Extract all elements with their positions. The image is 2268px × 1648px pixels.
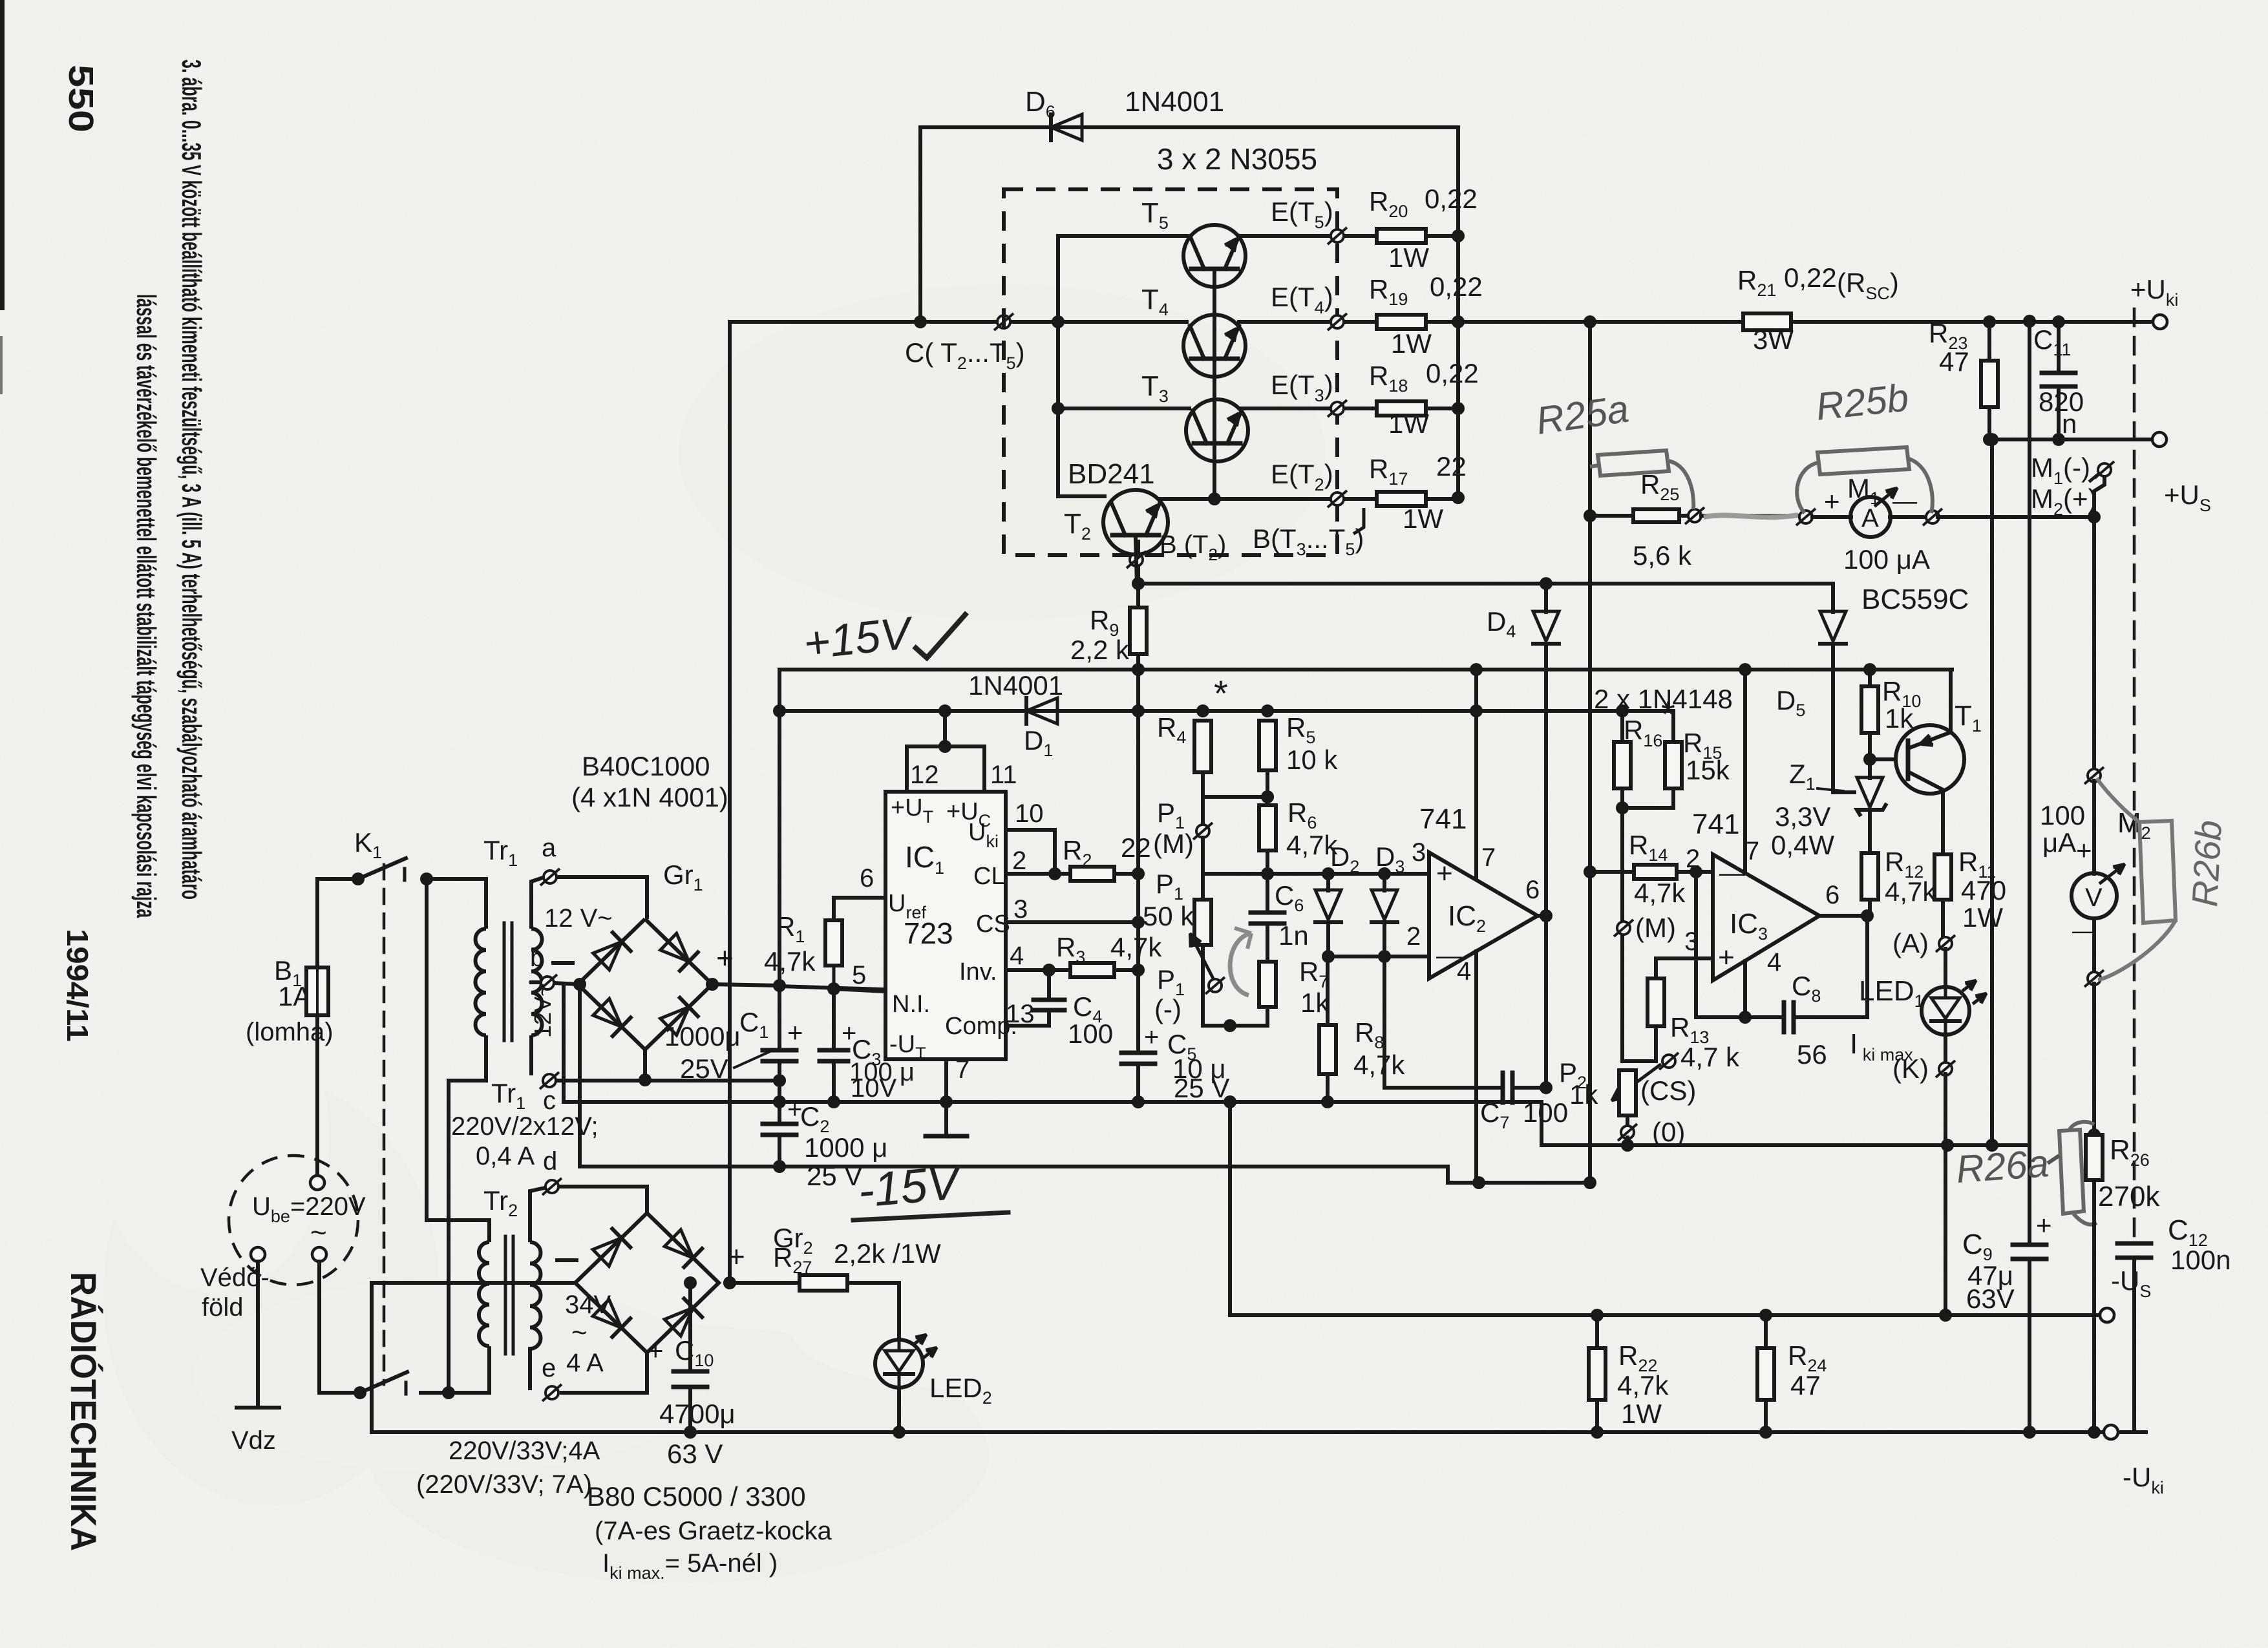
wire P1 bottom to row — [1203, 945, 1230, 1026]
resistor R7 — [1266, 924, 1269, 962]
connection point M lower — [1614, 920, 1633, 936]
connection point B(T2) — [1127, 551, 1146, 568]
wire T5 base chain — [1213, 269, 1216, 359]
wire A row — [1590, 514, 1633, 518]
wire R10 to T1 base — [1868, 733, 1872, 759]
potentiometer P2 — [1619, 1070, 1636, 1115]
connection point M1M2 — [2095, 461, 2114, 478]
svg-text:(K): (K) — [1892, 1053, 1929, 1084]
capacitor C5 — [1121, 1051, 1155, 1055]
svg-text:2,2 k: 2,2 k — [1070, 635, 1130, 665]
wire R2 to spine — [1114, 872, 1138, 876]
svg-text:(CS): (CS) — [1640, 1075, 1696, 1106]
bridge rectifier Gr2 — [575, 1213, 719, 1353]
terminal b — [538, 975, 557, 991]
wire C8 feedback — [1696, 872, 1784, 1017]
resistor R19 — [1377, 315, 1426, 329]
wire secondary a — [531, 878, 543, 929]
capacitor C10 — [688, 1283, 692, 1371]
svg-text:d: d — [543, 1147, 557, 1176]
svg-text:(lomha): (lomha) — [246, 1018, 334, 1046]
op-amp IC2 741 — [1429, 852, 1538, 978]
svg-text:R26a: R26a — [1955, 1141, 2050, 1191]
svg-text:+: + — [1436, 858, 1453, 889]
wire Gr1+ row to R1/N.I. spine — [779, 986, 884, 989]
wire Gr1 minus to -15V rail — [578, 984, 582, 1167]
wire LED2 to -Uki rail — [897, 1388, 901, 1432]
diode D5 — [1831, 584, 1835, 612]
terminal d — [542, 1178, 562, 1195]
svg-text:+: + — [787, 1017, 803, 1048]
svg-text:15k: 15k — [1686, 755, 1730, 785]
pin bracket 12 11 — [907, 746, 984, 792]
terminal -Us — [2100, 1308, 2114, 1322]
svg-text:E(T2): E(T2) — [1271, 459, 1333, 494]
resistor R15 — [1671, 711, 1675, 742]
transistor T3 — [1058, 407, 1189, 410]
connection point above M2 — [2084, 767, 2104, 784]
plug terminal left — [251, 1247, 265, 1262]
svg-text:22: 22 — [1121, 832, 1151, 863]
svg-text:12 V~: 12 V~ — [544, 904, 613, 933]
potentiometer P1 50k — [1201, 838, 1205, 900]
wire vertical IC2out — [1544, 644, 1548, 1088]
svg-text:6: 6 — [860, 864, 874, 893]
wire M2 riser — [2094, 476, 2104, 770]
diode D6 — [1049, 114, 1053, 140]
svg-text:100n: 100n — [2170, 1245, 2231, 1275]
svg-text:1k: 1k — [1300, 988, 1330, 1018]
resistor R21 — [1743, 313, 1791, 330]
wire d to bridge Gr2 — [559, 1187, 647, 1213]
svg-text:—: — — [1892, 488, 1917, 515]
connection point CS — [1659, 1053, 1679, 1070]
wire right bus — [1456, 127, 1460, 498]
wire center spine T2 base to C5 — [1136, 542, 1140, 1053]
svg-text:6: 6 — [1825, 881, 1839, 909]
wire c row — [556, 1079, 779, 1083]
wire R14 row — [1590, 870, 1634, 874]
connection point K — [1944, 1034, 1947, 1064]
wire secondary e — [528, 1349, 532, 1388]
wire R14 to IC3 minus — [1677, 870, 1713, 874]
svg-text:12: 12 — [910, 761, 939, 789]
pin 4 Inv wire — [1006, 968, 1070, 972]
svg-text:1W: 1W — [1403, 503, 1443, 534]
IC1 ground symbol — [944, 1102, 948, 1136]
wire b to bridge minus corner — [555, 983, 578, 984]
wire Gr2 plus riser to collector rail — [728, 322, 732, 1283]
svg-text:1W: 1W — [1388, 242, 1429, 273]
wire mid rail 0V — [564, 1100, 1542, 1104]
wire sense vertical +Us to 0 row — [1990, 439, 1994, 1145]
switch K1 pole 1 — [352, 872, 365, 885]
svg-text:0,22: 0,22 — [1430, 271, 1483, 302]
svg-text:220V/33V;4A: 220V/33V;4A — [449, 1437, 600, 1465]
svg-text:25 V: 25 V — [1174, 1073, 1229, 1103]
svg-text:2: 2 — [1686, 845, 1700, 873]
resistor R16 — [1620, 711, 1624, 742]
svg-text:25V: 25V — [680, 1053, 728, 1084]
svg-text:3,3V: 3,3V — [1775, 801, 1830, 832]
svg-text:1k: 1k — [1885, 703, 1914, 734]
diode D4 — [1544, 584, 1548, 612]
wire R27 row from Gr2 plus — [730, 1281, 899, 1285]
wire R26 to -Uki — [2092, 1180, 2096, 1432]
dashed remote sense line — [2133, 309, 2136, 1239]
resistor R24 — [1764, 1315, 1768, 1348]
svg-text:E(T4): E(T4) — [1271, 282, 1333, 317]
connection point 0 — [1618, 1124, 1637, 1141]
connection point E T2 — [1328, 491, 1347, 507]
wire mid rail jog to 0 row — [1542, 1102, 2030, 1145]
svg-text:+: + — [2076, 835, 2092, 865]
wire sense vertical +Uki to C9 — [2028, 321, 2031, 1245]
svg-text:*: * — [1214, 673, 1228, 713]
capacitor C6 — [1266, 874, 1269, 913]
svg-text:μA: μA — [2042, 827, 2076, 858]
svg-text:E(T3): E(T3) — [1271, 370, 1333, 405]
op-amp IC3 741 — [1713, 854, 1819, 980]
fuse B1 wire upper — [315, 967, 319, 1175]
svg-text:4,7k: 4,7k — [764, 946, 816, 977]
svg-text:2: 2 — [1012, 847, 1026, 875]
svg-text:c: c — [543, 1086, 556, 1115]
svg-text:1000μ: 1000μ — [664, 1021, 741, 1051]
svg-text:1N4001: 1N4001 — [968, 670, 1063, 701]
svg-text:4 A: 4 A — [566, 1349, 604, 1377]
svg-text:0,4W: 0,4W — [1771, 830, 1834, 860]
wire M2 bottom — [2092, 918, 2096, 973]
wire b drop to mid rail — [562, 984, 566, 1102]
svg-text:(220V/33V; 7A): (220V/33V; 7A) — [416, 1470, 592, 1499]
svg-text:7: 7 — [955, 1055, 970, 1084]
resistor R18 — [1377, 401, 1426, 416]
svg-text:(-): (-) — [1154, 994, 1182, 1024]
wire C1 to mid rail — [778, 1061, 781, 1102]
connection point after M1 — [1923, 509, 1942, 525]
wire Tr2 primary return to switch2 — [449, 1346, 489, 1393]
wire A row right — [1938, 515, 2094, 519]
svg-text:4,7k: 4,7k — [1617, 1370, 1669, 1400]
svg-text:e: e — [542, 1354, 556, 1382]
capacitor C12 — [2117, 1241, 2151, 1246]
svg-text:föld: föld — [202, 1293, 244, 1322]
svg-text:1k: 1k — [1569, 1079, 1598, 1110]
svg-text:4: 4 — [1457, 957, 1471, 986]
wire -Uki rail — [372, 1430, 2146, 1434]
svg-text:(0): (0) — [1652, 1117, 1685, 1147]
resistor R13 — [1648, 978, 1664, 1026]
diode D1 1N4001 — [1024, 698, 1028, 724]
svg-text:100: 100 — [1523, 1097, 1568, 1128]
wire CS row — [1622, 1059, 1656, 1063]
wire R13 to CS row — [1654, 1026, 1658, 1061]
switch K1 pole 2 — [319, 1391, 360, 1395]
transistor T1 BC559C — [1896, 725, 1964, 794]
wire A row middle — [1701, 514, 1801, 518]
wire fuse to switch K1 — [317, 879, 356, 967]
resistor R27 — [800, 1275, 847, 1291]
wire C10 to -Uki rail — [688, 1387, 692, 1432]
wire bracket to D1 row — [943, 711, 947, 746]
wire +15V rail — [779, 668, 1952, 671]
wire IC2 minus row — [1328, 955, 1429, 958]
svg-text:47: 47 — [1790, 1370, 1821, 1400]
svg-text:—: — — [2072, 917, 2095, 944]
wire R1 top to pin6 — [834, 898, 885, 920]
svg-text:0,22: 0,22 — [1425, 184, 1478, 214]
connection point collector — [994, 313, 1013, 330]
svg-text:10 k: 10 k — [1286, 745, 1338, 775]
wire R4/R5 link — [1203, 795, 1267, 799]
svg-text:470: 470 — [1961, 875, 2006, 905]
svg-text:4700μ: 4700μ — [659, 1399, 736, 1429]
wire C12 to -Uki corner — [2134, 1431, 2146, 1433]
diode D2 — [1326, 874, 1330, 891]
wire raw plus row to C1/R1 — [778, 986, 781, 1050]
terminal a — [540, 869, 560, 885]
svg-text:—: — — [1719, 859, 1745, 887]
resistor R11 — [1934, 854, 1951, 900]
resistor R5 — [1259, 721, 1276, 770]
resistor R26 — [2088, 1128, 2101, 1141]
svg-text:B80 C5000 / 3300: B80 C5000 / 3300 — [587, 1481, 806, 1512]
svg-text:3 x 2 N3055: 3 x 2 N3055 — [1157, 142, 1317, 176]
wire T4 base chain — [1213, 359, 1216, 443]
connection point P1 M — [1193, 823, 1213, 840]
wire Gr2 minus to -Uki rail — [372, 1283, 575, 1432]
capacitor C11 — [2057, 322, 2061, 373]
wire R5 R6 link — [1266, 770, 1269, 805]
transistor T5 — [1058, 234, 1187, 238]
wire IC3 pin7 riser — [1743, 670, 1747, 873]
connection point before M1 — [1796, 509, 1816, 525]
pin 2 CL wire — [1006, 872, 1070, 876]
fuse B1 — [306, 967, 328, 1015]
wire plug right to switch K1 pole 2 — [317, 1262, 321, 1393]
capacitor C9 — [2013, 1243, 2046, 1247]
wire IC2 feedback drop — [1383, 956, 1386, 1088]
resistor R23 — [1987, 322, 1991, 361]
wire R25 to contact — [1679, 514, 1688, 518]
wire collector rail — [730, 320, 1187, 324]
terminal -Uki — [2104, 1425, 2118, 1439]
svg-text:R26b: R26b — [2184, 819, 2229, 908]
wire IC3 plus input — [1656, 958, 1713, 978]
plug terminal top — [310, 1176, 324, 1190]
bridge rectifier Gr1 — [578, 919, 712, 1050]
svg-text:BD241: BD241 — [1068, 458, 1155, 490]
svg-text:100: 100 — [2040, 800, 2085, 830]
wire R6 to plus row — [1266, 850, 1269, 874]
svg-text:3: 3 — [1412, 838, 1426, 867]
svg-text:0,22: 0,22 — [1784, 262, 1837, 293]
svg-text:50 k: 50 k — [1143, 901, 1194, 931]
transformer Tr1 primary winding — [476, 929, 486, 1035]
resistor R10 — [1868, 670, 1872, 686]
svg-text:22: 22 — [1436, 451, 1467, 481]
capacitor C4 — [1047, 970, 1051, 1000]
wire K to -Us rail — [1944, 1074, 1947, 1315]
diode D3 — [1383, 874, 1386, 891]
terminal c — [540, 1072, 559, 1089]
svg-text:3W: 3W — [1753, 324, 1794, 355]
transformer Tr2 secondary winding — [530, 1242, 541, 1349]
svg-text:1N4001: 1N4001 — [1125, 86, 1224, 118]
wire secondary c — [529, 1035, 533, 1075]
wire T3 base chain — [1213, 443, 1216, 499]
wire T1 base row — [1870, 757, 1896, 761]
resistor R14 — [1634, 865, 1677, 879]
wire B drive row — [1138, 582, 1833, 586]
transistor T4 — [1058, 320, 1187, 324]
capacitor C8 — [1782, 1002, 1786, 1032]
wire R11 to A point — [1941, 900, 1945, 938]
wire a to bridge Gr1 top — [557, 877, 647, 919]
svg-text:2: 2 — [1406, 922, 1421, 951]
transformer Tr2 primary winding — [479, 1242, 489, 1346]
svg-text:+: + — [648, 1335, 664, 1366]
connection point E T4 — [1328, 313, 1347, 330]
handwritten swirl arrow — [1230, 933, 1251, 995]
connection point P1 minus — [1205, 977, 1225, 994]
svg-text:V: V — [2085, 883, 2103, 912]
LED LED1 — [1944, 949, 1947, 988]
handwritten R26b — [2139, 821, 2176, 923]
svg-text:6: 6 — [1525, 876, 1540, 904]
wire output rail to R21 — [1458, 320, 1743, 324]
svg-text:+: + — [2036, 1210, 2052, 1240]
svg-text:1W: 1W — [1388, 408, 1429, 439]
wire E T4 row — [1239, 320, 1377, 324]
svg-text:n: n — [2062, 408, 2077, 439]
svg-text:~: ~ — [571, 1317, 588, 1347]
svg-text:Inv.: Inv. — [959, 958, 997, 986]
capacitor C1 — [763, 1048, 796, 1053]
wire C2 to -15 rail — [778, 1135, 781, 1167]
wire Tr1 primary bottom elbow — [449, 1035, 486, 1081]
terminal +Us — [2152, 432, 2167, 447]
wire bridge bottom to c row — [643, 1050, 647, 1080]
wire M1 to contact — [1890, 515, 1927, 519]
svg-text:-15V: -15V — [856, 1155, 966, 1218]
wire sense vertical A — [1588, 322, 1592, 1183]
voltmeter M2 — [2092, 781, 2096, 874]
connection point E T5 — [1328, 227, 1347, 244]
svg-text:+: + — [1718, 942, 1735, 973]
resistor R25 — [1633, 509, 1679, 522]
zener Z1 — [1868, 759, 1872, 778]
wire IC2 pin4 riser — [1474, 951, 1478, 1183]
wire R4 to M point — [1201, 772, 1205, 825]
resistor R2 — [1070, 867, 1114, 881]
capacitor C3 — [832, 989, 836, 1050]
resistor R8 — [1326, 956, 1330, 1025]
svg-text:100: 100 — [1068, 1019, 1113, 1049]
connection point after R25 — [1685, 507, 1704, 524]
svg-text:100 μA: 100 μA — [1843, 544, 1930, 575]
resistor R12 — [1861, 853, 1878, 900]
wire -15V rail jog — [1448, 1167, 1590, 1183]
wire +Us rail — [1989, 438, 2154, 441]
earth ground symbol — [237, 1406, 279, 1410]
svg-text:(M): (M) — [1635, 913, 1676, 943]
resistor R3 — [1070, 963, 1114, 977]
pin 3 CS wire — [1006, 920, 1138, 924]
svg-text:10: 10 — [1015, 799, 1044, 828]
svg-text:63V: 63V — [1966, 1284, 2015, 1314]
wire T2 base to spine — [1136, 538, 1137, 584]
wire R21 to +Uki terminal — [1791, 320, 2154, 324]
switch K1 linkage dashed — [383, 865, 386, 1384]
svg-text:220V/2x12V;: 220V/2x12V; — [451, 1112, 599, 1141]
svg-text:1W: 1W — [1391, 328, 1432, 359]
svg-text:CL: CL — [973, 863, 1005, 890]
wire e to bridge Gr2 — [560, 1353, 647, 1393]
wire IC3 pin4 riser — [1743, 961, 1747, 1017]
wire B vertical to P2 — [1620, 808, 1624, 1061]
wire IC2 output — [1538, 914, 1548, 918]
svg-text:4,7k: 4,7k — [1353, 1050, 1405, 1080]
svg-text:(A): (A) — [1892, 928, 1929, 958]
svg-text:+: + — [1824, 486, 1840, 516]
svg-text:56: 56 — [1797, 1039, 1827, 1070]
svg-text:741: 741 — [1692, 808, 1739, 840]
svg-text:B40C1000: B40C1000 — [582, 751, 710, 781]
svg-text:0,22: 0,22 — [1426, 358, 1479, 388]
wire Tr1 primary return to switch2 — [442, 1386, 455, 1399]
wire +15 riser to Gr1 plus node — [778, 670, 781, 986]
svg-text:1n: 1n — [1278, 920, 1309, 951]
wire T1 collector to R11 — [1941, 790, 1945, 854]
wire row to R7 bottom — [1230, 1007, 1267, 1026]
wire secondary d — [530, 1188, 545, 1242]
wire T1 emitter to +15 rail — [1949, 670, 1953, 732]
svg-text:1994/11: 1994/11 — [61, 929, 94, 1042]
capacitor C7 — [1384, 1086, 1503, 1090]
wire D5 to Z1 — [1833, 644, 1856, 792]
svg-text:7: 7 — [1481, 843, 1496, 872]
resistor R9 — [1130, 607, 1147, 654]
svg-text:lással és távérzékelő bemenett: lással és távérzékelő bemenettel ellátot… — [131, 294, 162, 918]
P2 wiper arrow — [1613, 1065, 1660, 1100]
svg-text:(7A-es Graetz-kocka: (7A-es Graetz-kocka — [595, 1517, 832, 1545]
wire -15V rail — [580, 1165, 1448, 1168]
wire P2 to 0 point — [1626, 1115, 1629, 1127]
wire D6 loop — [920, 127, 1458, 322]
LED LED2 — [875, 1340, 923, 1388]
svg-text:2,2k /1W: 2,2k /1W — [834, 1238, 941, 1269]
wire R27 to LED2 — [847, 1283, 899, 1340]
transformer Tr1 secondary winding — [531, 929, 542, 1035]
wire E T5 row — [1239, 234, 1377, 238]
wire E T2 row — [1160, 497, 1377, 501]
connection point below M2 — [2084, 970, 2104, 987]
ammeter M1 — [1812, 515, 1851, 519]
dashed box 3x2N3055 — [1004, 189, 1337, 555]
resistor R6 — [1259, 805, 1276, 850]
svg-text:47: 47 — [1939, 346, 1969, 377]
svg-text:1W: 1W — [1621, 1399, 1662, 1429]
svg-text:A: A — [1861, 504, 1879, 533]
svg-text:63 V: 63 V — [667, 1439, 723, 1469]
svg-text:1000 μ: 1000 μ — [804, 1132, 887, 1163]
wire D1 row — [779, 709, 1673, 713]
connection point A — [1936, 935, 1955, 952]
wire IC2 pin7 riser — [1474, 670, 1478, 879]
svg-text:13: 13 — [1006, 1000, 1035, 1028]
